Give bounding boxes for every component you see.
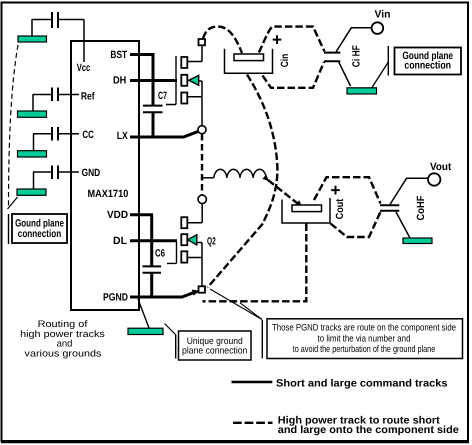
DH trace (thick) xyxy=(130,79,177,82)
dashed track Cout to CoHF (top) xyxy=(314,177,381,203)
transistor Q2 gate arrow xyxy=(188,235,197,245)
terminal Vin xyxy=(372,22,384,34)
wire Q1 drain to node xyxy=(188,46,202,62)
svg-text:PGND: PGND xyxy=(103,291,128,303)
note box: Unique ground plane connection xyxy=(179,331,252,360)
svg-text:VDD: VDD xyxy=(107,209,128,221)
node via square (top) xyxy=(199,39,206,45)
wire CiHF to Vin xyxy=(336,28,371,52)
wire CC cap to ground bar xyxy=(33,134,35,151)
wire Vcc cap to ground bar xyxy=(31,20,33,37)
IC U1 MAX1710 body xyxy=(71,41,139,310)
arrow at inductor end xyxy=(262,175,269,182)
capacitor C-Ref xyxy=(33,88,80,102)
ground bar 2 xyxy=(18,111,47,117)
ground bar 1 xyxy=(18,36,47,42)
arrow into Cout xyxy=(295,200,302,207)
transistor Q1 source pad xyxy=(181,93,187,104)
pointer bar left of box xyxy=(8,214,10,244)
dashed pointer from ground bars to box xyxy=(9,45,19,206)
svg-text:Short and large command tracks: Short and large command tracks xyxy=(276,377,448,389)
wire CoHF to Vout xyxy=(390,178,428,204)
pointer line node to PGND note box xyxy=(210,289,262,320)
svg-text:Vout: Vout xyxy=(430,161,452,173)
capacitor Cin body xyxy=(225,49,273,74)
capacitor Cout body xyxy=(282,198,330,223)
svg-text:connection: connection xyxy=(404,60,451,72)
C6 bracket wire xyxy=(167,242,177,264)
transistor Q1 gate pad xyxy=(181,75,187,86)
plus sign Cout xyxy=(331,186,340,195)
pointer ground bar 6 to bar xyxy=(372,63,388,88)
wire GND cap to ground bar xyxy=(33,172,35,189)
pointer tick to ground bar 4 xyxy=(8,197,18,209)
svg-text:DH: DH xyxy=(113,74,126,86)
svg-text:various grounds: various grounds xyxy=(25,348,102,359)
dashed return Cout to PGND node xyxy=(203,224,307,302)
ground bar 3 xyxy=(18,151,47,157)
svg-text:LX: LX xyxy=(117,130,128,142)
wire Q1 source to LX node xyxy=(201,97,203,126)
dashed track Cin to CiHF (top) xyxy=(259,27,325,53)
node via square (bottom) xyxy=(199,286,206,292)
wire Q1 gate-source join xyxy=(188,81,202,97)
wire Q2 gate-source join xyxy=(188,243,203,258)
svg-text:Cin: Cin xyxy=(279,54,291,68)
wire node to Q2 drain xyxy=(188,204,203,223)
capacitor C-GND xyxy=(33,166,79,180)
svg-text:BST: BST xyxy=(110,49,127,61)
svg-text:C7: C7 xyxy=(158,90,167,102)
svg-text:CoHF: CoHF xyxy=(415,195,427,221)
svg-text:plane connection: plane connection xyxy=(182,346,247,357)
inductor L1 xyxy=(202,169,266,180)
legend dashed text xyxy=(278,414,459,436)
svg-text:Q2: Q2 xyxy=(207,235,216,247)
svg-text:Vcc: Vcc xyxy=(77,62,91,74)
note box: Gound plane connection (right) xyxy=(395,48,462,75)
ground bar 5 xyxy=(128,328,163,334)
C7 lower trace to LX xyxy=(152,113,155,138)
VDD trace (thick) xyxy=(130,215,153,266)
LX trace (thick) xyxy=(130,131,199,137)
svg-text:to avoid the perturbation of t: to avoid the perturbation of the ground … xyxy=(293,344,436,355)
arrow into PGND node xyxy=(192,290,200,296)
ground bar 6 xyxy=(347,88,377,94)
wire Ref cap to ground bar xyxy=(32,95,34,112)
svg-text:Cout: Cout xyxy=(334,198,346,219)
node Q2 drain circle xyxy=(198,195,206,203)
transistor Q2 gate pad xyxy=(181,234,187,245)
node LX circle xyxy=(198,126,206,134)
capacitor C6 xyxy=(143,248,166,273)
pointer line dashed track to PGND note box xyxy=(240,303,262,320)
pointer bar PGND note box xyxy=(261,320,263,358)
dashed track Cin to CiHF (bottom) xyxy=(263,62,325,88)
svg-text:GND: GND xyxy=(82,167,101,179)
transistor Q1 gate arrow xyxy=(189,75,199,85)
svg-text:to limit the via number and: to limit the via number and xyxy=(318,333,411,344)
capacitor C-Vcc (top-left bypass) xyxy=(32,12,85,28)
note box: Those PGND tracks xyxy=(267,319,463,359)
C6 lower trace to PGND xyxy=(150,273,153,297)
ground bar 7 xyxy=(403,238,432,244)
pointer bar unique box xyxy=(175,335,177,359)
C7 bracket wire xyxy=(166,56,176,105)
svg-text:Those PGND tracks are route on: Those PGND tracks are route on the compo… xyxy=(272,323,456,334)
dashed track LX node to Q2 drain node xyxy=(201,134,203,195)
capacitor C7 xyxy=(143,90,167,112)
svg-text:and large onto the component s: and large onto the component side xyxy=(278,424,459,436)
dashed track Cout to CoHF (bottom) xyxy=(331,212,381,237)
svg-text:Ref: Ref xyxy=(81,90,95,102)
svg-text:Vin: Vin xyxy=(375,8,391,20)
wire Q2 source to PGND node xyxy=(201,258,203,287)
ground bar 4 xyxy=(17,189,46,195)
transistor Q2 drain pad xyxy=(181,217,187,228)
svg-text:Ci HF: Ci HF xyxy=(351,45,363,67)
dashed track node to Cin (input return arc) xyxy=(208,75,278,288)
terminal Vout xyxy=(428,173,440,185)
wire Vcc cap to Vcc pin xyxy=(83,20,85,63)
capacitor CoHF xyxy=(380,205,399,211)
wire CiHF to ground bar xyxy=(339,62,351,87)
plus sign Cin xyxy=(273,35,282,44)
svg-text:CC: CC xyxy=(82,129,94,141)
PGND trace (thick) with arrow xyxy=(130,292,196,297)
pointer bar right top xyxy=(387,46,389,76)
capacitor C-CC xyxy=(33,127,79,141)
legend solid line xyxy=(232,381,273,383)
transistor Q1 drain pad xyxy=(181,57,187,68)
dashed track inductor to Cout xyxy=(268,180,297,203)
BST trace (thick) xyxy=(130,53,153,105)
dashed track node square to Cin top (Vin feed arc) xyxy=(203,27,242,53)
pointer tick bar5 to box xyxy=(165,324,176,335)
svg-text:DL: DL xyxy=(113,235,128,247)
svg-text:connection: connection xyxy=(18,228,61,240)
capacitor CiHF xyxy=(324,53,340,62)
note box: Gound plane connection (left) xyxy=(12,214,67,243)
transistor Q2 source pad xyxy=(181,251,187,262)
wire CoHF to ground bar xyxy=(396,212,410,238)
DL trace (thick) xyxy=(130,239,177,242)
svg-text:MAX1710: MAX1710 xyxy=(88,188,129,200)
svg-text:C6: C6 xyxy=(155,248,165,260)
annotation: routing note xyxy=(20,319,105,359)
wire PGND to ground bar 5 xyxy=(138,299,149,328)
legend dashed line xyxy=(233,422,273,424)
